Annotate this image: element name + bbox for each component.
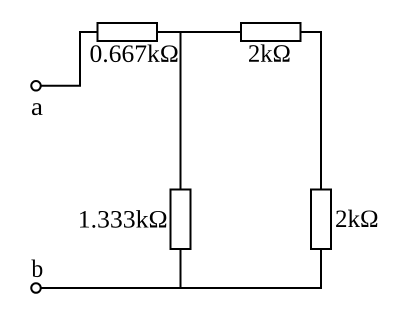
label 0.667kOhm (91, 45, 178, 63)
resistor R4 2k ohm right (vertical box) (311, 190, 331, 250)
label 2kOhm (top) (249, 44, 290, 61)
wire below R3 to bottom rail (180, 249, 182, 288)
terminal a (open circle) (31, 81, 41, 91)
resistor R2 2k ohm top (horizontal box) (241, 23, 301, 41)
resistor R1 0.667k ohm (horizontal box) (98, 23, 158, 41)
resistor R3 1.333k ohm (vertical box) (171, 190, 191, 250)
label 2kOhm (right) (336, 210, 377, 227)
wire R1 right to R2 left (157, 31, 241, 33)
node label b (31, 260, 42, 278)
label 1.333kOhm (80, 210, 166, 228)
wire R2 right then down right side to R4 (301, 32, 322, 190)
terminal b (open circle) (31, 283, 41, 293)
node label a (32, 103, 43, 115)
wire below R4 and bottom rail to terminal b (41, 249, 321, 288)
wire from terminal a up to top rail (41, 32, 97, 86)
wire middle branch down to R3 (180, 32, 182, 190)
